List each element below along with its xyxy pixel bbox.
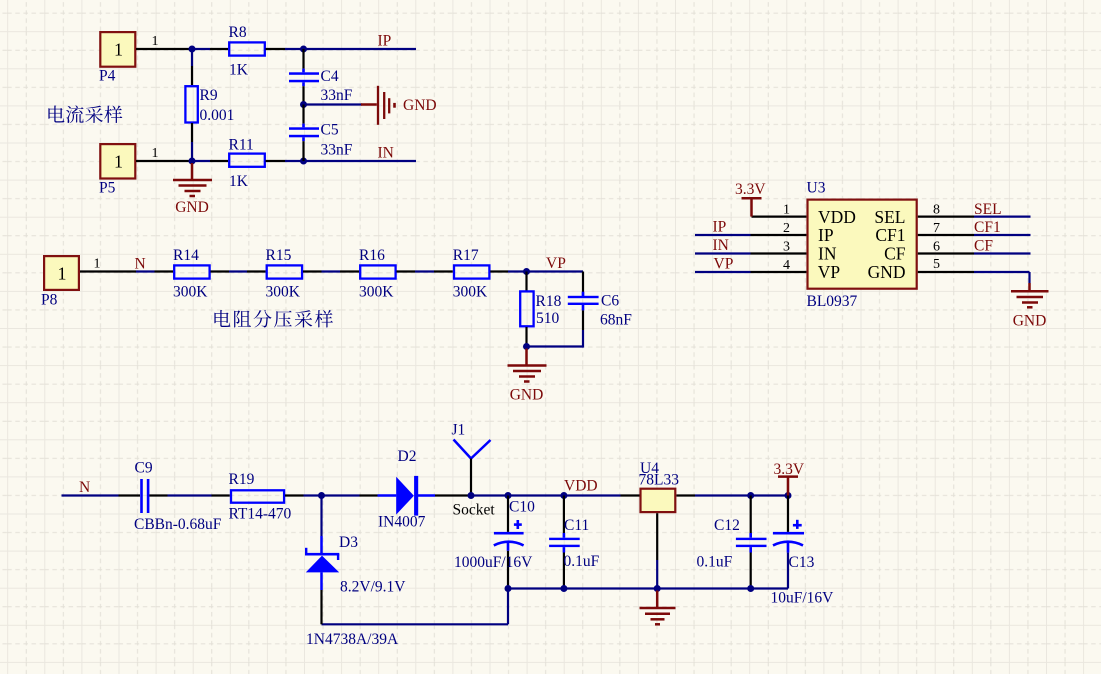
pin 1 of P4 xyxy=(136,34,192,49)
wire R17 to VP node xyxy=(490,270,526,272)
wire net IP xyxy=(304,48,417,50)
svg-text:3: 3 xyxy=(783,239,790,254)
regulator U4 78L33 xyxy=(621,460,696,589)
svg-text:R8: R8 xyxy=(229,24,247,41)
pin 3 IN of U3 xyxy=(751,239,837,263)
resistor R17 xyxy=(453,247,490,301)
svg-text:BL0937: BL0937 xyxy=(807,293,858,310)
wire R19 to D3 node xyxy=(285,494,322,496)
svg-text:0.001: 0.001 xyxy=(200,107,235,124)
pin 8 SEL of U3 xyxy=(874,203,974,227)
node junction D3 tap xyxy=(318,492,325,499)
svg-text:0.1uF: 0.1uF xyxy=(564,553,600,570)
resistor R16 xyxy=(359,247,396,301)
power 3.3V at pin 1 xyxy=(735,181,766,217)
svg-text:C13: C13 xyxy=(789,554,815,571)
svg-text:IN: IN xyxy=(713,237,729,254)
wire D2 to J1 node xyxy=(435,494,471,496)
capacitor C6 xyxy=(568,292,632,348)
capacitor C12 xyxy=(697,496,767,589)
node junction at P5/R11/R9 xyxy=(189,158,196,165)
svg-text:GND: GND xyxy=(868,262,906,282)
pin 7 CF1 of U3 xyxy=(875,221,974,245)
node junction C13/3.3V xyxy=(785,492,792,499)
svg-text:300K: 300K xyxy=(173,284,208,301)
svg-text:8.2V/9.1V: 8.2V/9.1V xyxy=(340,579,406,596)
svg-text:R15: R15 xyxy=(266,247,292,264)
svg-text:R14: R14 xyxy=(173,247,199,264)
svg-text:U3: U3 xyxy=(807,180,826,197)
svg-text:1K: 1K xyxy=(229,173,249,190)
wire net IN xyxy=(304,160,417,162)
wire R11 to IN node xyxy=(266,160,304,162)
svg-text:N: N xyxy=(135,256,146,273)
svg-text:C10: C10 xyxy=(509,499,535,516)
resistor R18 xyxy=(520,272,561,347)
node junction J1 xyxy=(468,492,475,499)
svg-text:68nF: 68nF xyxy=(600,312,632,329)
svg-text:CF: CF xyxy=(974,237,993,254)
wire to ground tap xyxy=(304,103,363,105)
svg-text:C6: C6 xyxy=(601,293,619,310)
svg-text:R16: R16 xyxy=(359,247,385,264)
svg-text:10uF/16V: 10uF/16V xyxy=(771,590,835,607)
svg-text:5: 5 xyxy=(933,257,940,272)
wire net CF from pin 6 xyxy=(974,252,1031,254)
svg-text:0.1uF: 0.1uF xyxy=(697,554,733,571)
wire R15 to R16 xyxy=(303,270,359,272)
capacitor C13 polarized xyxy=(771,496,835,607)
svg-text:CF: CF xyxy=(884,244,906,264)
svg-text:1: 1 xyxy=(114,39,123,59)
ground GND (rotated right) xyxy=(361,86,437,125)
svg-text:IP: IP xyxy=(378,33,392,50)
wire pin 5 to ground xyxy=(974,272,1030,283)
svg-text:510: 510 xyxy=(536,310,560,327)
ground GND at pin 5 xyxy=(1011,283,1049,330)
svg-text:300K: 300K xyxy=(453,284,488,301)
svg-text:VP: VP xyxy=(546,255,566,272)
svg-text:C5: C5 xyxy=(321,122,339,139)
svg-text:1K: 1K xyxy=(229,62,249,79)
svg-text:GND: GND xyxy=(510,387,544,404)
svg-text:R18: R18 xyxy=(536,293,562,310)
resistor R11 xyxy=(229,137,265,190)
svg-text:GND: GND xyxy=(175,199,209,216)
svg-text:IN4007: IN4007 xyxy=(378,514,426,531)
wire net CF1 from pin 7 xyxy=(974,234,1031,236)
wire J1 to C10 node xyxy=(471,494,508,496)
node junction gnd C12 xyxy=(747,585,754,592)
wire ground rail xyxy=(508,587,788,589)
pin 6 CF of U3 xyxy=(884,239,974,263)
svg-text:R19: R19 xyxy=(229,471,255,488)
capacitor C9 xyxy=(134,460,222,534)
connector P5 xyxy=(99,144,135,196)
capacitor C10 polarized xyxy=(454,496,535,589)
resistor R9 xyxy=(185,86,234,124)
svg-text:VDD: VDD xyxy=(818,207,856,227)
power 3.3V xyxy=(774,461,805,496)
svg-text:D2: D2 xyxy=(398,448,417,465)
svg-text:33nF: 33nF xyxy=(321,87,353,104)
svg-text:IN: IN xyxy=(378,145,394,162)
op-amp U3 body BL0937 xyxy=(807,180,917,311)
title 电阻分压采样 xyxy=(214,310,230,327)
connector P4 xyxy=(99,32,135,84)
svg-text:CF1: CF1 xyxy=(974,219,1001,236)
svg-text:1: 1 xyxy=(94,257,101,272)
svg-text:VP: VP xyxy=(818,262,841,282)
svg-text:C9: C9 xyxy=(135,460,153,477)
wire net IP to pin 2 xyxy=(695,234,751,236)
svg-text:RT14-470: RT14-470 xyxy=(229,506,292,523)
wire C6 bottom to junction xyxy=(527,345,584,347)
svg-text:GND: GND xyxy=(1013,313,1047,330)
node junction at P4/R8/R9 xyxy=(189,46,196,53)
svg-text:300K: 300K xyxy=(359,284,394,301)
wire C9 to R19 xyxy=(149,494,229,496)
ground GND under U4 xyxy=(640,591,676,625)
svg-text:R9: R9 xyxy=(200,87,218,104)
resistor R8 xyxy=(229,24,265,79)
zener diode D3 xyxy=(305,496,406,649)
svg-text:SEL: SEL xyxy=(974,201,1002,218)
wire P8 to R14 xyxy=(136,270,173,272)
svg-text:1: 1 xyxy=(114,151,123,171)
node junction IN xyxy=(300,158,307,165)
resistor R15 xyxy=(266,247,303,301)
connector P8 xyxy=(41,256,79,308)
resistor R19 xyxy=(229,471,292,523)
node junction C12 xyxy=(747,492,754,499)
svg-text:8: 8 xyxy=(933,203,940,218)
svg-text:C4: C4 xyxy=(321,68,339,85)
node junction gnd C10 xyxy=(505,585,512,592)
wire zener return path xyxy=(322,589,509,625)
wire junction to R9 xyxy=(191,49,193,85)
wire VDD rail xyxy=(508,494,621,496)
wire U4 out to 3.3V xyxy=(695,494,788,496)
svg-text:VP: VP xyxy=(714,255,734,272)
svg-text:1: 1 xyxy=(58,263,67,283)
pin 2 IP of U3 xyxy=(751,221,834,245)
diode D2 IN4007 xyxy=(378,448,436,531)
svg-text:300K: 300K xyxy=(266,284,301,301)
svg-text:P8: P8 xyxy=(41,292,58,309)
svg-text:IP: IP xyxy=(713,218,727,235)
wire net IN to pin 3 xyxy=(695,252,751,254)
node junction gnd C11 xyxy=(560,585,567,592)
node junction VP xyxy=(523,268,530,275)
wire junction to R8 xyxy=(192,48,228,50)
wire VP node to C6 xyxy=(527,272,584,297)
svg-text:C12: C12 xyxy=(714,517,740,534)
svg-text:P5: P5 xyxy=(99,180,116,197)
capacitor C11 xyxy=(549,496,600,589)
svg-text:C11: C11 xyxy=(564,517,589,534)
svg-text:33nF: 33nF xyxy=(321,142,353,159)
node junction gnd U4 xyxy=(654,585,661,592)
svg-text:1: 1 xyxy=(152,146,159,161)
svg-text:2: 2 xyxy=(783,221,790,236)
resistor R14 xyxy=(173,247,210,301)
node junction C10 xyxy=(505,492,512,499)
svg-text:Socket: Socket xyxy=(453,502,496,519)
wire R16 to R17 xyxy=(397,270,453,272)
svg-text:GND: GND xyxy=(403,97,437,114)
wire R8 to IP node xyxy=(266,48,304,50)
svg-text:1000uF/16V: 1000uF/16V xyxy=(454,554,533,571)
svg-text:R11: R11 xyxy=(229,137,254,154)
svg-text:4: 4 xyxy=(783,258,790,273)
svg-text:78L33: 78L33 xyxy=(639,472,680,489)
ground GND under R18 xyxy=(508,349,547,404)
capacitor C5 xyxy=(289,105,353,162)
svg-text:N: N xyxy=(79,479,90,496)
wire R9 to lower node xyxy=(191,123,193,161)
svg-text:IP: IP xyxy=(818,225,834,245)
svg-text:6: 6 xyxy=(933,239,940,254)
svg-text:3.3V: 3.3V xyxy=(735,181,766,198)
pin 1 VDD of U3 xyxy=(752,203,856,227)
title 电流采样 xyxy=(48,106,64,123)
svg-text:VDD: VDD xyxy=(564,478,598,495)
pin 5 GND of U3 xyxy=(868,257,974,282)
wire node to D2 xyxy=(322,494,378,496)
node junction IP xyxy=(300,46,307,53)
connector J1 socket xyxy=(452,422,496,519)
pin 1 of P5 xyxy=(136,146,192,161)
capacitor C4 xyxy=(289,49,353,105)
pin 4 VP of U3 xyxy=(751,258,841,282)
node junction C4/C5/GND xyxy=(300,101,307,108)
ground GND under P5 xyxy=(173,163,212,216)
wire net SEL from pin 8 xyxy=(974,216,1031,218)
svg-text:1: 1 xyxy=(152,34,159,49)
svg-text:P4: P4 xyxy=(99,68,116,85)
node junction C11 xyxy=(560,492,567,499)
wire net VP to pin 4 xyxy=(695,271,751,273)
svg-text:1: 1 xyxy=(783,203,790,218)
svg-text:SEL: SEL xyxy=(874,207,905,227)
svg-text:CF1: CF1 xyxy=(875,225,905,245)
svg-text:1N4738A/39A: 1N4738A/39A xyxy=(306,631,399,648)
wire junction to R11 xyxy=(192,160,228,162)
wire R14 to R15 xyxy=(211,270,266,272)
svg-text:J1: J1 xyxy=(452,422,466,439)
svg-text:D3: D3 xyxy=(339,534,358,551)
node junction R18/C6 ground xyxy=(523,343,530,350)
svg-text:7: 7 xyxy=(933,221,940,236)
svg-text:R17: R17 xyxy=(453,247,479,264)
pin 1 of P8 xyxy=(80,257,136,272)
wire N to C9 xyxy=(62,494,141,496)
svg-text:CBBn-0.68uF: CBBn-0.68uF xyxy=(134,516,222,533)
svg-text:IN: IN xyxy=(818,244,837,264)
